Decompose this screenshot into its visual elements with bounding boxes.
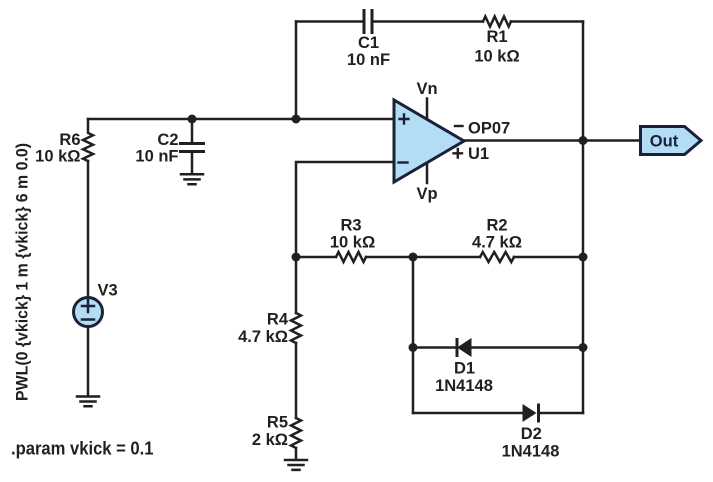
wire D1 row right segment xyxy=(472,346,584,349)
svg-text:R3: R3 xyxy=(340,217,361,235)
svg-text:4.7 kΩ: 4.7 kΩ xyxy=(472,234,522,252)
ground R5 xyxy=(285,460,307,470)
junction output node xyxy=(579,136,588,145)
wire R3 row left segment xyxy=(296,256,336,259)
label PWL source definition xyxy=(14,143,32,401)
svg-text:10 kΩ: 10 kΩ xyxy=(474,47,519,65)
junction D1 left node xyxy=(409,343,418,352)
svg-text:R2: R2 xyxy=(486,217,507,235)
resistor R2 xyxy=(472,217,522,262)
label U1 on noninverting pin xyxy=(454,145,490,163)
svg-text:D1: D1 xyxy=(454,359,475,377)
wire R6 to V3 xyxy=(87,161,90,298)
junction R3-R2 middle node xyxy=(409,253,418,262)
svg-text:R4: R4 xyxy=(267,311,289,329)
wire V3 to ground xyxy=(87,327,90,396)
junction R2 right node xyxy=(579,253,588,262)
junction noninverting input node xyxy=(292,115,301,124)
svg-text:R1: R1 xyxy=(486,28,507,46)
wire top feedback rail middle segment xyxy=(374,20,483,23)
wire R5 to ground xyxy=(295,448,298,460)
node Vp stub xyxy=(416,165,437,204)
resistor R1 xyxy=(474,17,519,66)
resistor R3 xyxy=(330,217,375,262)
wire top feedback rail left segment xyxy=(296,20,362,23)
svg-text:C2: C2 xyxy=(157,131,178,149)
wire top feedback rail right segment xyxy=(511,20,583,23)
capacitor C1 xyxy=(347,11,390,70)
capacitor C2 xyxy=(135,119,203,174)
wire output rail xyxy=(464,139,640,142)
label OP07 on inverting pin xyxy=(455,120,510,138)
resistor R4 xyxy=(238,311,301,347)
wire diode branch vertical xyxy=(412,257,415,413)
wire R4 top lead xyxy=(295,257,298,313)
wire noninverting input rail xyxy=(88,118,394,121)
svg-text:2 kΩ: 2 kΩ xyxy=(252,431,288,449)
svg-text:R5: R5 xyxy=(267,414,288,432)
svg-text:R6: R6 xyxy=(59,131,80,149)
resistor R6 xyxy=(35,119,93,166)
resistor R5 xyxy=(252,414,301,450)
voltage source V3 xyxy=(74,282,118,327)
wire right vertical rail xyxy=(582,22,585,414)
svg-text:C1: C1 xyxy=(358,34,379,52)
ground V3 xyxy=(77,397,99,407)
svg-text:1N4148: 1N4148 xyxy=(502,442,560,460)
junction C2 top node xyxy=(188,115,197,124)
svg-text:.param vkick = 0.1: .param vkick = 0.1 xyxy=(11,438,154,458)
svg-text:OP07: OP07 xyxy=(468,120,510,138)
diode D2 xyxy=(502,404,560,460)
op-amp U1 xyxy=(394,100,464,182)
svg-text:4.7 kΩ: 4.7 kΩ xyxy=(238,328,288,346)
svg-text:Out: Out xyxy=(650,132,679,150)
svg-text:V3: V3 xyxy=(98,282,118,300)
wire R4 to R5 xyxy=(295,343,298,418)
svg-text:10 nF: 10 nF xyxy=(135,148,178,166)
wire D2 row left segment xyxy=(413,412,522,415)
svg-text:U1: U1 xyxy=(468,145,489,163)
wire D1 row left segment xyxy=(413,346,456,349)
ground C2 xyxy=(181,174,203,184)
wire R3 row right segment xyxy=(514,256,583,259)
svg-text:Vn: Vn xyxy=(416,80,437,98)
node Out flag xyxy=(641,127,702,155)
wire R3 row middle segment xyxy=(366,256,480,259)
wire D2 row right segment xyxy=(539,412,584,415)
wire left vertical from top rail to noninverting input xyxy=(295,22,298,120)
junction R3 left node xyxy=(292,253,301,262)
junction D1 right node xyxy=(579,343,588,352)
svg-text:PWL(0 {vkick} 1 m {vkick} 6 m: PWL(0 {vkick} 1 m {vkick} 6 m 0.0) xyxy=(14,143,32,401)
svg-text:1N4148: 1N4148 xyxy=(435,377,493,395)
svg-text:10 nF: 10 nF xyxy=(347,51,390,69)
wire inverting input segment xyxy=(296,162,394,257)
svg-text:10 kΩ: 10 kΩ xyxy=(35,148,80,166)
svg-text:10 kΩ: 10 kΩ xyxy=(330,234,375,252)
diode D1 xyxy=(435,338,493,395)
node Vn stub xyxy=(416,80,437,119)
label .param directive xyxy=(11,438,154,458)
svg-text:D2: D2 xyxy=(521,425,542,443)
svg-text:Vp: Vp xyxy=(416,185,437,203)
